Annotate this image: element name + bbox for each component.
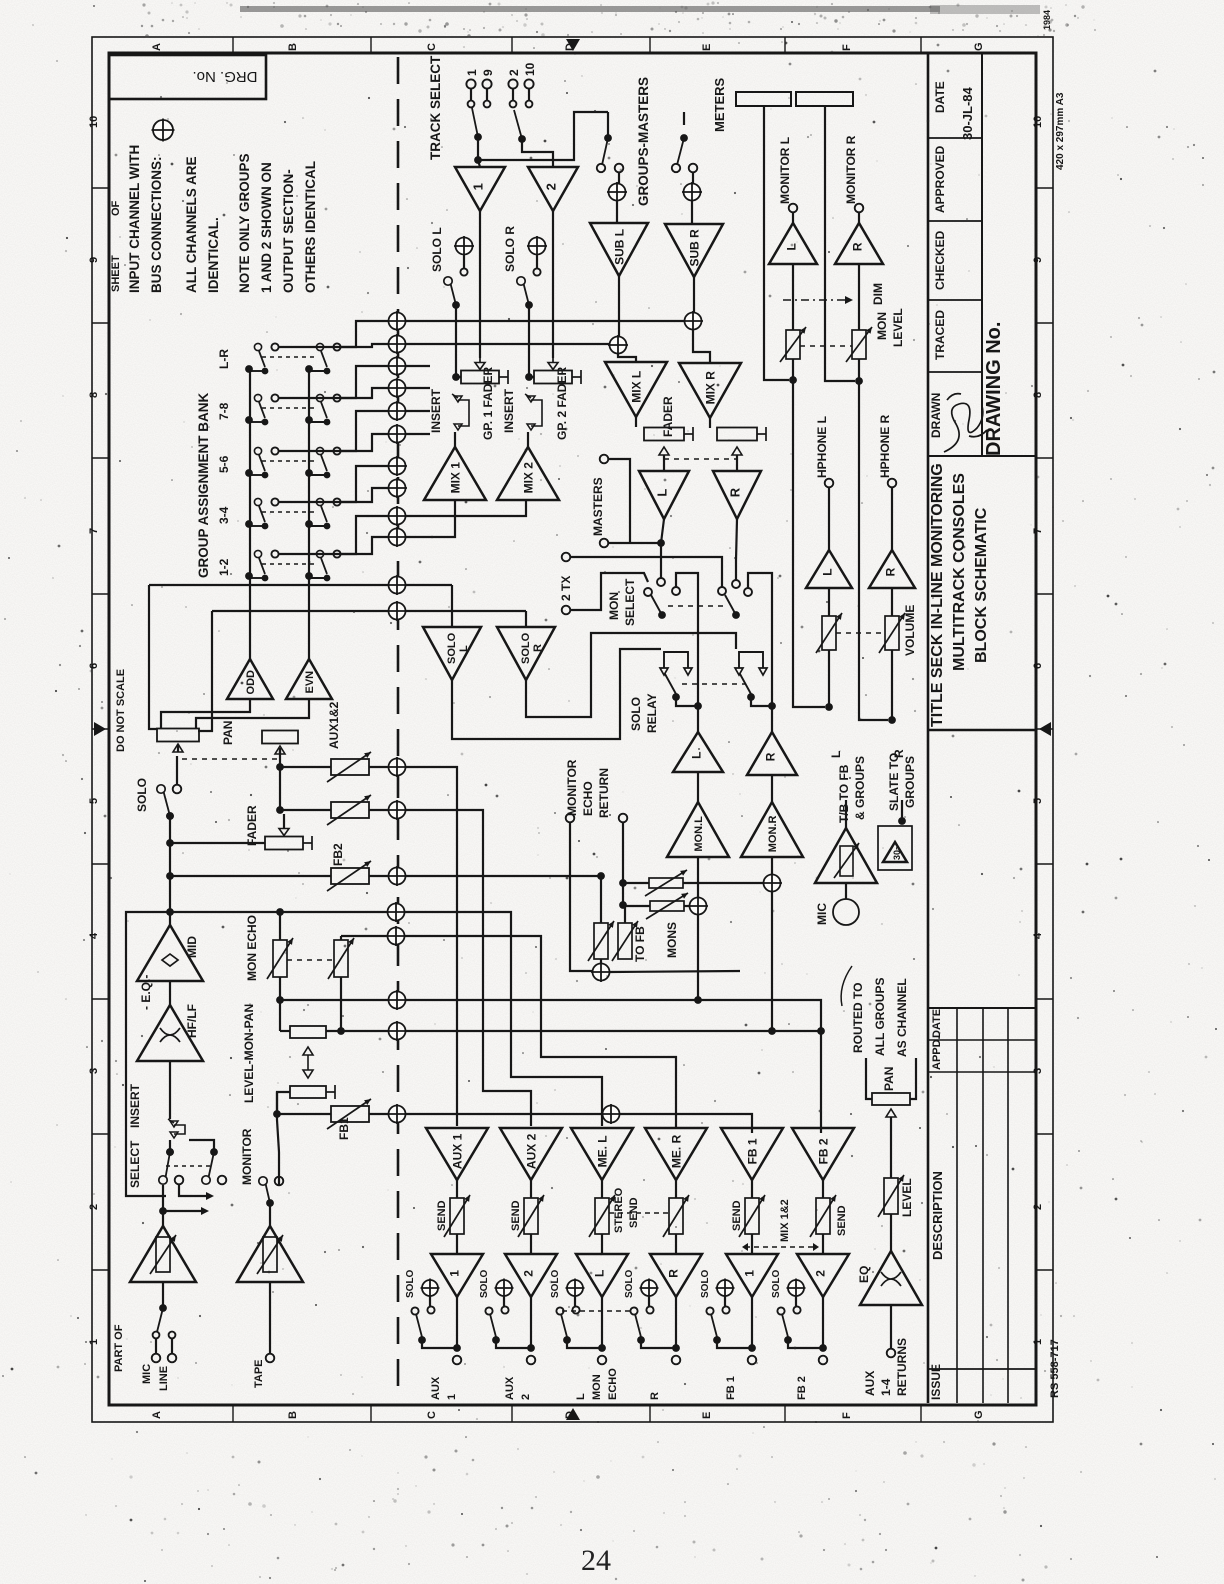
switch gm R c2 <box>689 164 698 173</box>
pot mon echo L <box>267 938 293 979</box>
switch monitor <box>259 1177 274 1207</box>
wire vol gang <box>836 632 885 634</box>
wire aux1 row b <box>369 766 389 768</box>
svg-text:OTHERS IDENTICAL: OTHERS IDENTICAL <box>303 161 318 293</box>
switch bank 3-4 odd c2 <box>271 498 278 505</box>
junction <box>305 365 313 373</box>
solo R contact <box>533 268 540 275</box>
oplus mons send <box>387 990 407 1010</box>
svg-text:9: 9 <box>88 257 100 263</box>
op-amp hphone R <box>869 550 915 588</box>
op-amp ODD bus driver <box>227 659 273 699</box>
wire bank 1-2 gang <box>262 563 318 565</box>
wire select gang <box>166 1165 212 1167</box>
svg-text:LINE: LINE <box>158 1366 170 1391</box>
wire gm link1b <box>607 112 609 138</box>
junction <box>166 1148 174 1156</box>
junction <box>694 702 702 710</box>
pot mon pan <box>290 1085 335 1099</box>
bus crossing y344 <box>387 334 407 354</box>
svg-text:BLOCK SCHEMATIC: BLOCK SCHEMATIC <box>973 507 990 663</box>
switch bank 3-4 odd <box>249 498 268 529</box>
wire solorelay gang <box>682 683 745 685</box>
svg-text:CHECKED: CHECKED <box>933 230 947 290</box>
svg-text:& GROUPS: & GROUPS <box>853 756 867 820</box>
wire retpan bracket L <box>866 1058 872 1099</box>
svg-text:FB 2: FB 2 <box>796 1376 808 1400</box>
oplus AUX1 send <box>387 757 407 777</box>
junction <box>305 520 313 528</box>
svg-text:HF/LF: HF/LF <box>185 1004 199 1038</box>
wire AUX 1 amp to pot <box>456 1180 458 1198</box>
solo L contact <box>460 268 467 275</box>
svg-text:ME. L: ME. L <box>595 1135 609 1167</box>
wire row1000 a <box>280 999 388 1001</box>
oplus mix R bus <box>683 311 703 331</box>
wire me pot2 stem <box>340 936 342 940</box>
wire hpL to pot <box>828 588 830 616</box>
wire subL out <box>618 276 620 345</box>
junction <box>855 377 863 385</box>
wire Ramp to contact <box>736 519 737 580</box>
pot ME. R send <box>663 1195 689 1237</box>
switch bank 7-8 even <box>309 394 330 425</box>
svg-text:EQ: EQ <box>857 1266 871 1283</box>
svg-text:10: 10 <box>88 116 100 128</box>
label output ME. L MON <box>591 1374 603 1400</box>
junction <box>819 1344 827 1352</box>
wire solo to pan wiper <box>176 756 178 784</box>
svg-text:9: 9 <box>481 69 495 76</box>
svg-text:420 x 297mm A3: 420 x 297mm A3 <box>1055 92 1066 170</box>
oscillator box <box>878 826 912 870</box>
svg-text:L: L <box>689 752 703 759</box>
label output AUX 1 1 <box>446 1394 458 1400</box>
label output FB 1 FB 1 <box>725 1376 737 1400</box>
node mon echo return R <box>619 814 628 823</box>
wire ret L down <box>570 822 592 971</box>
pot tape gain trim <box>257 1235 283 1274</box>
label AUX1&2 pan <box>327 701 341 749</box>
label 30hz <box>892 845 902 860</box>
brace routed <box>841 966 852 1006</box>
wire mons1 right <box>683 882 763 884</box>
bus crossing y466 <box>387 456 407 476</box>
wire trk1 jack <box>470 89 472 100</box>
switch monitor contact2 <box>275 1177 284 1186</box>
svg-text:ROUTED TO: ROUTED TO <box>851 983 865 1053</box>
solo L bus <box>454 236 474 256</box>
junction <box>245 365 253 373</box>
wire bank 1-2 to bus a <box>279 516 389 554</box>
svg-text:1984: 1984 <box>1042 10 1052 30</box>
wire monpot gang <box>800 345 852 347</box>
arrow to monitor A <box>206 1192 214 1200</box>
svg-text:1: 1 <box>742 1270 756 1277</box>
svg-text:G: G <box>973 1410 985 1419</box>
wire solo ME. L out <box>567 1340 602 1348</box>
label MID <box>185 936 199 958</box>
wire tofbR top <box>624 905 626 923</box>
wire masters R <box>608 542 661 544</box>
wire me row2 a <box>341 935 387 937</box>
oplus monecho L <box>386 902 406 922</box>
label MIC tb <box>815 903 829 925</box>
switch groups-masters L <box>597 134 612 172</box>
wire monL out <box>792 212 794 223</box>
svg-text:SOLO: SOLO <box>629 697 643 731</box>
junction <box>525 373 533 381</box>
oplus solo FB 1 <box>716 1279 735 1298</box>
svg-text:2: 2 <box>813 1270 827 1277</box>
fader GP1 <box>461 357 508 385</box>
svg-text:APPROVED: APPROVED <box>933 145 947 213</box>
label HF/LF <box>185 1004 199 1038</box>
solo contact2 AUX 2 <box>485 1307 492 1314</box>
op-amp bus amp ME. L <box>571 1128 633 1180</box>
svg-text:TITLE SECK IN-LINE MONITORI: TITLE SECK IN-LINE MONITORING <box>929 463 946 727</box>
switch mon select R lever <box>725 595 740 619</box>
wire mixR to fader <box>709 418 711 428</box>
op-amp bus amp AUX 1 <box>426 1128 488 1180</box>
pot talkback <box>834 843 859 878</box>
op-amp talkback <box>815 828 877 883</box>
oplus mix bus R row <box>387 601 407 621</box>
svg-text:2: 2 <box>1032 1204 1044 1210</box>
node aux returns <box>887 1349 896 1358</box>
svg-text:1: 1 <box>1032 1339 1044 1345</box>
label GROUPS slate <box>903 756 917 808</box>
svg-text:ECHO: ECHO <box>607 1368 619 1400</box>
junction <box>657 539 665 547</box>
wire bank L-R gang <box>262 356 318 358</box>
op-amp monitor L out <box>769 223 817 264</box>
junction <box>888 716 896 724</box>
note all channels line1 <box>184 156 199 293</box>
svg-text:L: L <box>592 1270 606 1277</box>
wire solo ME. R stem <box>648 1296 650 1306</box>
svg-text:FADER: FADER <box>245 805 259 846</box>
svg-text:HPHONE L: HPHONE L <box>815 416 829 478</box>
node output ME. R <box>672 1356 681 1365</box>
label RETURNS <box>895 1338 909 1396</box>
op-amp L master <box>639 471 689 519</box>
junction <box>245 520 253 528</box>
svg-text:L: L <box>820 568 834 575</box>
junction <box>166 812 174 820</box>
svg-text:2: 2 <box>520 1394 532 1400</box>
wire bank 7-8 to bus a <box>279 366 389 398</box>
svg-text:GROUP ASSIGNMENT BANK: GROUP ASSIGNMENT BANK <box>196 392 211 578</box>
wire monL amp to pot <box>792 264 794 330</box>
svg-text:AS CHANNEL: AS CHANNEL <box>895 978 909 1057</box>
op-amp MIC preamp <box>130 1226 196 1282</box>
solo contact FB 1 <box>722 1306 729 1313</box>
node hphone R <box>888 479 897 488</box>
wire fader wiper up <box>283 814 285 828</box>
svg-text:AUX: AUX <box>863 1371 877 1396</box>
wire odd base feed <box>161 699 250 729</box>
wire AUX 2 solo down <box>530 1297 532 1348</box>
junction <box>817 1027 825 1035</box>
wire fader row <box>170 842 265 844</box>
node hphone L <box>825 479 834 488</box>
node monitor L out <box>789 204 798 213</box>
label DRAWING No. <box>983 322 1005 456</box>
switch gm L c2 <box>615 164 624 173</box>
op-amp return EQ <box>860 1251 922 1305</box>
arrow fb gang b <box>813 1243 819 1251</box>
wire retpan bracket R <box>910 1058 916 1099</box>
svg-text:SUB R: SUB R <box>687 229 701 267</box>
junction <box>694 996 702 1004</box>
wire group2 bus to MIX1 <box>406 500 455 537</box>
wire mix L row b <box>406 584 452 586</box>
node monitor R out <box>855 204 864 213</box>
wire aux1 row c <box>406 767 457 1126</box>
wire tofbL bottom <box>600 959 602 963</box>
note input channel line1 <box>127 145 142 293</box>
title line3 <box>973 507 990 663</box>
note input channel line2 <box>149 156 164 293</box>
svg-text:BUS CONNECTIONS:: BUS CONNECTIONS: <box>149 156 164 293</box>
wire fb1 row a <box>277 1113 331 1115</box>
wire tape jack <box>269 1282 271 1354</box>
op-amp solo send AUX 1 <box>431 1254 483 1297</box>
svg-text:SEND: SEND <box>510 1200 522 1231</box>
wire mix R drop <box>198 611 212 731</box>
wire relay R join <box>751 697 772 706</box>
pot MONS 2 <box>646 893 688 919</box>
svg-text:DO NOT SCALE: DO NOT SCALE <box>115 669 127 752</box>
wire monlevel left <box>280 1030 290 1032</box>
label SOLO L <box>430 227 444 272</box>
junction <box>159 1207 167 1215</box>
wire mixL fader out <box>663 455 665 471</box>
wire select B up <box>189 1140 214 1152</box>
note groups line1 <box>237 153 252 293</box>
fader GP2 <box>534 357 581 385</box>
wiper mix R <box>732 447 742 455</box>
svg-text:RETURN: RETURN <box>597 768 611 818</box>
node 2TX a <box>562 553 571 562</box>
wire me row2 c <box>405 936 676 1128</box>
op-amp monitor R <box>747 732 797 775</box>
label output AUX 2 2 <box>520 1394 532 1400</box>
node 2TX b <box>562 606 571 615</box>
svg-text:MIX L: MIX L <box>629 371 643 403</box>
oplus solo ME. R <box>640 1279 659 1298</box>
junction <box>453 1344 461 1352</box>
wire fb gang <box>745 1246 816 1248</box>
switch bank 7-8 odd <box>249 394 268 425</box>
switch bank L-R even <box>309 343 330 374</box>
svg-text:7: 7 <box>1032 528 1044 534</box>
arrow dim <box>845 296 853 304</box>
label output AUX 1 AUX <box>430 1376 442 1400</box>
wire odd bus <box>249 369 251 659</box>
label T/B TO FB <box>837 764 851 823</box>
wire ME. R solo down <box>675 1297 677 1348</box>
op-amp bus amp FB 1 <box>721 1128 783 1180</box>
svg-text:MON: MON <box>607 592 621 620</box>
label STEREO <box>613 1187 625 1233</box>
wire trk9 jack <box>486 89 488 100</box>
svg-text:RS 558-717: RS 558-717 <box>1049 1339 1061 1398</box>
svg-text:MID: MID <box>185 936 199 958</box>
label MIX 1&2 <box>779 1199 791 1242</box>
wire hphoneR <box>891 487 893 550</box>
wire FB 2 solo down <box>822 1297 824 1348</box>
switch solo relay L <box>660 652 692 701</box>
svg-text:MONITOR R: MONITOR R <box>844 135 858 204</box>
switch channel solo <box>157 785 174 820</box>
svg-text:DATE: DATE <box>931 1009 943 1038</box>
monsel L common <box>672 587 680 595</box>
label -E.Q.- <box>139 975 153 1010</box>
svg-text:8: 8 <box>88 392 100 398</box>
note groups line3 <box>281 169 296 293</box>
svg-text:6: 6 <box>88 663 100 669</box>
svg-text:OUTPUT SECTION-: OUTPUT SECTION- <box>281 169 296 293</box>
label DO NOT SCALE <box>115 669 127 752</box>
wire bus row 366 <box>406 365 430 367</box>
wire aux1 row a <box>280 766 331 768</box>
wiper return pan <box>886 1109 896 1117</box>
label SOLO RELAY <box>629 697 643 731</box>
svg-text:MONITOR: MONITOR <box>240 1128 254 1185</box>
switch solo R <box>517 277 533 309</box>
svg-text:SOLO: SOLO <box>405 1269 416 1298</box>
wire Lamp base down <box>697 772 699 802</box>
svg-text:B: B <box>287 43 299 51</box>
wire fb2 row b <box>369 875 389 877</box>
value 30-JL-84 <box>960 86 975 140</box>
wire mons1 left <box>623 882 649 884</box>
bus crossing y321 <box>387 311 407 331</box>
monsel L contact B <box>644 588 652 596</box>
wiper arrow pan <box>173 744 183 752</box>
op-amp solo send AUX 2 <box>505 1254 557 1297</box>
label MONITOR ECHO RETURN3 <box>597 768 611 818</box>
oplus to fb out <box>591 962 611 982</box>
wire ME. R amp to pot <box>675 1180 677 1198</box>
wire mons2 right <box>684 905 689 907</box>
label output ME. R R <box>649 1392 661 1400</box>
solo contact AUX 2 <box>501 1306 508 1313</box>
svg-text:ODD: ODD <box>245 670 257 695</box>
svg-text:6: 6 <box>1032 663 1044 669</box>
op-amp SOLO L <box>423 627 481 680</box>
op-amp solo send ME. R <box>650 1254 702 1297</box>
node MIC input <box>152 1354 161 1363</box>
label output AUX 2 AUX <box>504 1376 516 1400</box>
svg-text:MONITOR L: MONITOR L <box>778 137 792 204</box>
switch bank 5-6 even <box>309 447 330 478</box>
fader mix R <box>717 427 766 441</box>
label LEVEL ret <box>900 1178 914 1217</box>
label GROUP ASSIGNMENT BANK <box>196 392 211 578</box>
microphone MIC <box>833 899 859 925</box>
op-amp TAPE preamp <box>237 1226 303 1282</box>
pot FB 2 send <box>810 1195 836 1237</box>
svg-text:R: R <box>763 752 777 761</box>
pot mon level R <box>846 327 872 362</box>
wire monitor up <box>277 1098 279 1185</box>
switch solo FB 1 <box>711 1314 721 1344</box>
svg-text:DATE: DATE <box>933 81 947 113</box>
wire monL pot down <box>793 359 825 707</box>
svg-text:4: 4 <box>88 932 100 939</box>
title field DATE <box>933 81 947 113</box>
wire MONR join <box>772 1030 821 1032</box>
solo contact2 ME. R <box>630 1307 637 1314</box>
label HPHONE L <box>815 416 829 478</box>
label TRACK SELECT <box>428 55 443 160</box>
wiper mon level link <box>303 1055 313 1078</box>
wire retlevel down <box>890 1214 892 1251</box>
svg-text:FB2: FB2 <box>331 843 345 866</box>
svg-text:C: C <box>426 43 438 51</box>
wire monR amp to pot <box>858 264 860 330</box>
wire bank 7-8 to bus b <box>341 388 389 398</box>
wire ME. R pot to solo <box>675 1234 677 1254</box>
label MIC <box>141 1364 153 1384</box>
node track 1 <box>466 79 475 88</box>
insert jack channel <box>168 1119 185 1138</box>
svg-text:LEVEL: LEVEL <box>891 308 905 347</box>
label INSERT <box>128 1083 142 1128</box>
wire channel up fb2 <box>169 839 171 912</box>
wire soloL tap <box>463 255 465 268</box>
wire relay L join <box>676 697 698 706</box>
junction <box>597 872 605 880</box>
wiper arrow auxpan <box>275 746 285 754</box>
wire auxpan wiper stem <box>279 748 281 754</box>
label FADER main <box>661 396 675 437</box>
svg-text:MIX R: MIX R <box>703 371 717 405</box>
switch line contact <box>169 1332 176 1339</box>
svg-text:1: 1 <box>471 183 486 190</box>
wire gp2 insert down <box>527 432 529 447</box>
svg-text:8: 8 <box>1032 392 1044 398</box>
switch bank 1-2 odd c2 <box>271 550 278 557</box>
op-amp solo send FB 2 <box>797 1254 849 1297</box>
op-amp solo send FB 1 <box>726 1254 778 1297</box>
wire FB 1 solo down <box>751 1297 753 1348</box>
svg-text:1: 1 <box>88 1339 100 1345</box>
svg-text:E: E <box>701 44 713 51</box>
wire eq mid link <box>169 981 171 1005</box>
wire hphoneL <box>828 487 830 550</box>
label OF <box>110 200 122 216</box>
svg-text:MONITOR: MONITOR <box>565 759 579 816</box>
title line1 <box>929 463 946 727</box>
oplus solo AUX 1 <box>421 1279 440 1298</box>
note groups line2 <box>259 162 274 293</box>
wire ret eq down <box>890 1305 892 1348</box>
wire subR feed <box>691 201 693 224</box>
wire monitor chain up <box>276 1092 278 1098</box>
svg-text:1: 1 <box>465 69 479 76</box>
wire monsel gang <box>668 605 728 607</box>
svg-text:AUX 1: AUX 1 <box>450 1133 464 1169</box>
slate junction <box>898 817 906 825</box>
switch bank 7-8 odd c2 <box>271 394 278 401</box>
wire L-R bus row L <box>406 320 693 322</box>
wire bank 5-6 to bus a <box>279 411 389 451</box>
note groups line4 <box>303 161 318 293</box>
